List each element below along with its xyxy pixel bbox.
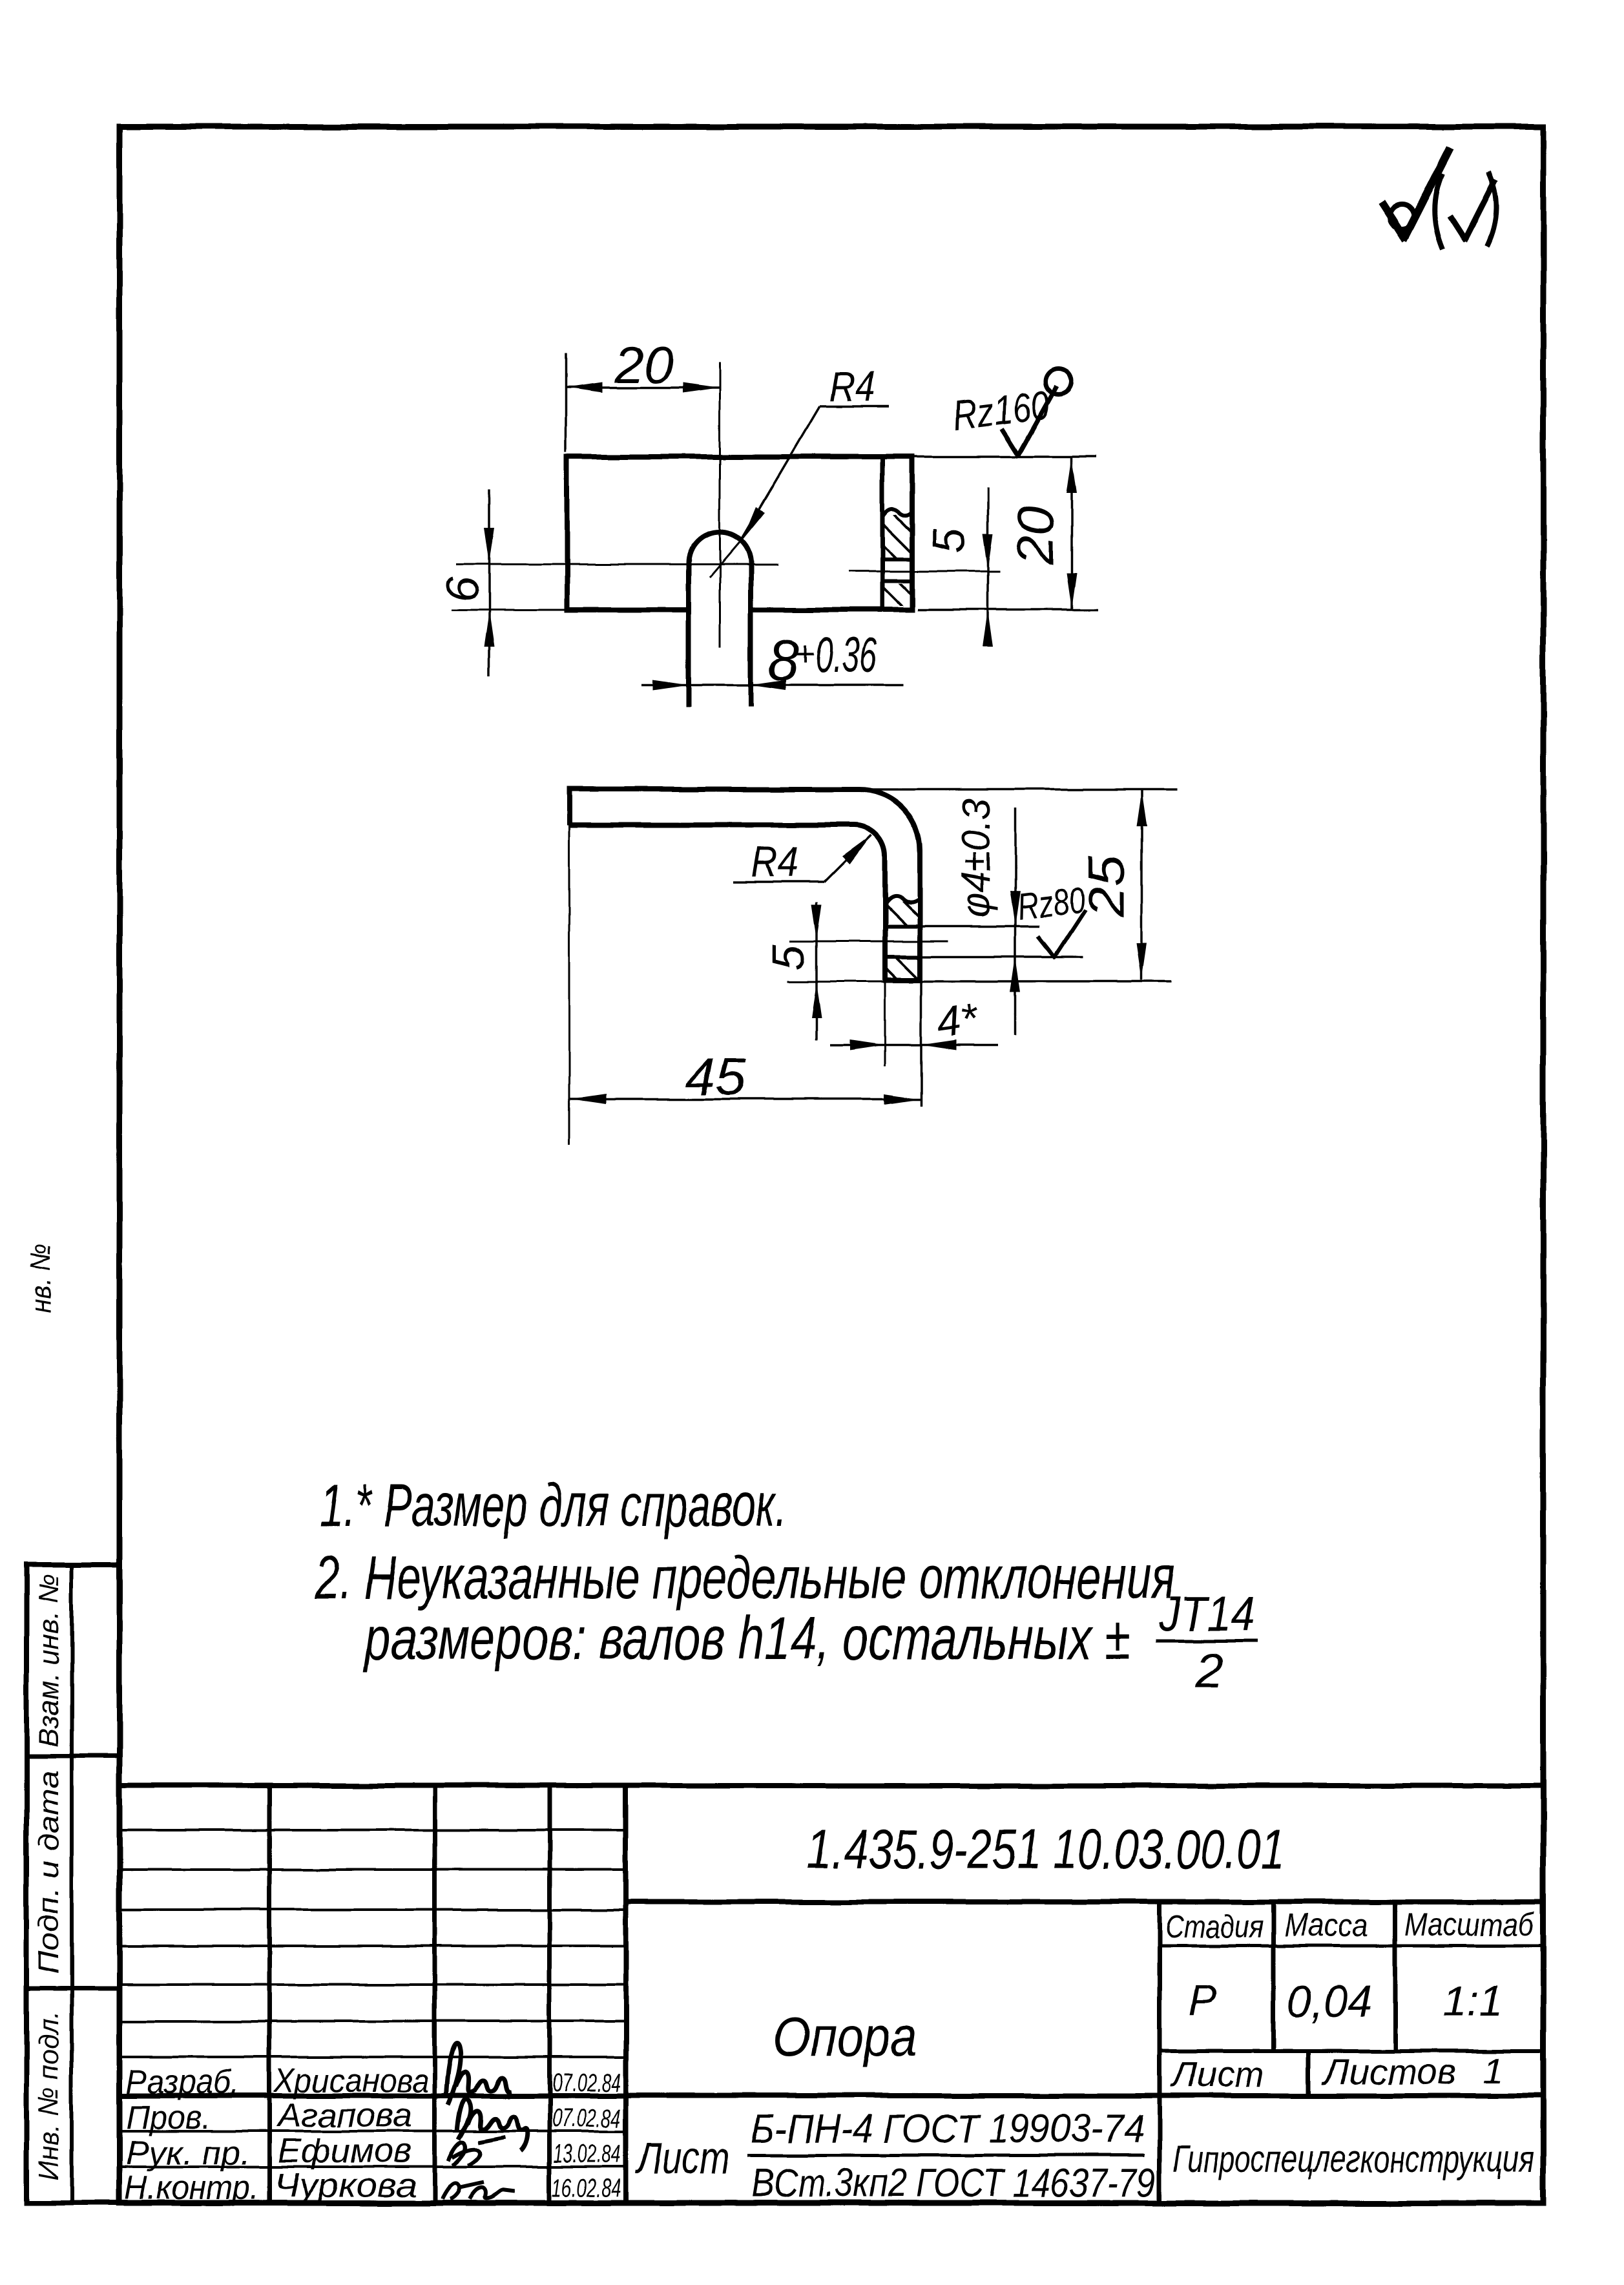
svg-text:2: 2 — [1195, 1643, 1223, 1698]
svg-text:5: 5 — [924, 528, 974, 554]
svg-text:Стадия: Стадия — [1165, 1908, 1264, 1945]
label podp i data — [33, 1771, 65, 1974]
svg-text:Р: Р — [1189, 1976, 1217, 2023]
svg-text:нв. №: нв. № — [25, 1243, 57, 1313]
view1 hole axis horizontal — [848, 570, 1000, 572]
svg-text:Листов: Листов — [1322, 2051, 1456, 2092]
svg-text:Взам. инв. №: Взам. инв. № — [33, 1574, 65, 1747]
title block outer top line — [120, 1783, 1543, 1788]
title block horizontal: below name row — [120, 2093, 1543, 2098]
view1 local section boundary line — [880, 458, 885, 609]
material cell — [635, 2107, 1156, 2206]
dimension 5 view1 — [924, 488, 993, 647]
svg-text:Разраб.: Разраб. — [126, 2063, 239, 2101]
svg-text:Масштаб: Масштаб — [1404, 1906, 1535, 1943]
svg-text:ВСт.3кп2 ГОСТ 14637-79: ВСт.3кп2 ГОСТ 14637-79 — [751, 2161, 1156, 2206]
view2 hole axis — [790, 941, 948, 943]
svg-text:1.* Размер для справок.: 1.* Размер для справок. — [320, 1471, 787, 1539]
svg-text:1: 1 — [1483, 2050, 1503, 2091]
view2 inner contour — [569, 825, 885, 980]
dimension 20 right — [912, 457, 1098, 610]
dimension dia 4 +-0.3 — [954, 798, 1021, 1036]
svg-text:Н.контр.: Н.контр. — [125, 2169, 259, 2207]
svg-text:45: 45 — [685, 1048, 747, 1105]
svg-text:R4: R4 — [829, 362, 875, 410]
title block horizontal: below values — [1160, 2049, 1543, 2053]
view2 break wavy line — [885, 896, 920, 904]
view1 hole edge lines — [882, 559, 912, 581]
dimension 25 — [1077, 789, 1147, 980]
svg-text:Опора: Опора — [773, 2006, 918, 2068]
view2 outer contour — [569, 789, 920, 980]
dimension 45 — [569, 1048, 921, 1105]
parenthesized check symbol — [1435, 172, 1496, 249]
names — [273, 2062, 429, 2204]
svg-text:Лист: Лист — [1171, 2054, 1264, 2094]
note line 2 — [314, 1543, 1175, 1611]
part name Opora — [773, 2006, 918, 2068]
view2 hole lines — [885, 926, 1083, 957]
svg-text:20: 20 — [614, 336, 673, 393]
dimension 6 left — [437, 490, 566, 676]
left table row lines — [120, 1830, 626, 2167]
view1 break (wavy) line — [882, 509, 912, 517]
svg-text:6: 6 — [437, 576, 488, 601]
svg-text:Чуркова: Чуркова — [274, 2167, 417, 2204]
svg-text:размеров: валов h14, остальных: размеров: валов h14, остальных ± — [364, 1604, 1130, 1672]
svg-text:φ4±0.3: φ4±0.3 — [954, 798, 999, 918]
dimension 4* — [830, 994, 998, 1050]
role labels — [125, 2063, 259, 2207]
view2 leg end face — [883, 977, 922, 983]
svg-text:20: 20 — [1006, 506, 1064, 565]
signature n kontr — [442, 2182, 514, 2199]
svg-text:5: 5 — [764, 944, 814, 970]
svg-text:Пров.: Пров. — [126, 2099, 211, 2136]
signature prov — [457, 2099, 528, 2151]
svg-text:0,04: 0,04 — [1287, 1976, 1372, 2027]
dimension 20 top — [566, 336, 720, 452]
view1 part outline — [567, 457, 912, 610]
svg-text:07.02.84: 07.02.84 — [552, 2104, 621, 2133]
stamp values — [1189, 1976, 1503, 2027]
svg-text:07.02.84: 07.02.84 — [552, 2069, 621, 2097]
label vzam inv — [33, 1574, 65, 1747]
dates — [552, 2069, 621, 2202]
view1 hatching lower — [884, 583, 910, 606]
label inv n podl — [33, 2011, 65, 2180]
svg-text:0.36: 0.36 — [815, 628, 877, 683]
view1 hatching upper — [884, 512, 910, 557]
view1 slot axis horizontal — [456, 564, 778, 566]
svg-text:2. Неуказанные предельные откл: 2. Неуказанные предельные отклонения — [314, 1543, 1175, 1611]
svg-text:4*: 4* — [934, 994, 982, 1047]
note line 3 — [364, 1604, 1130, 1672]
svg-text:Лист: Лист — [635, 2133, 729, 2183]
signature ruk pr — [448, 2137, 505, 2165]
view2 extension lines — [569, 789, 1178, 1144]
designation text — [807, 1819, 1285, 1881]
dimension 5 view2 — [764, 902, 822, 1040]
stamp headers — [1165, 1906, 1535, 1945]
signature razrab — [446, 2043, 512, 2105]
svg-text:Подп. и дата: Подп. и дата — [33, 1771, 65, 1974]
svg-text:Инв. № подл.: Инв. № подл. — [33, 2011, 65, 2180]
view2 hatching lower — [887, 959, 918, 978]
partial label fragment above stack — [25, 1243, 57, 1313]
surface finish general symbol with circle — [1381, 147, 1450, 240]
svg-text:13.02.84: 13.02.84 — [554, 2140, 621, 2168]
svg-text:Гипроспецлегконструкция: Гипроспецлегконструкция — [1172, 2138, 1534, 2180]
title block bottom line — [120, 2200, 1543, 2206]
dimension 8+0.36 — [642, 628, 904, 692]
svg-text:16.02.84: 16.02.84 — [552, 2174, 621, 2202]
svg-text:1:1: 1:1 — [1443, 1977, 1503, 2025]
title block horizontal: header underline — [1160, 1945, 1543, 1948]
leader R4 view1 — [709, 362, 889, 578]
organisation name — [1172, 2138, 1534, 2180]
leader R4 view2 — [734, 835, 871, 886]
view1 slot (width 8, R4) — [689, 532, 751, 706]
svg-text:Хрисанова: Хрисанова — [273, 2062, 429, 2100]
title block vertical dividers — [269, 1786, 1395, 2203]
sheet row — [1171, 2050, 1504, 2094]
svg-text:+: + — [795, 634, 815, 673]
drawing frame — [120, 127, 1543, 2203]
svg-text:R4: R4 — [751, 838, 798, 886]
roughness Rz160 callout — [950, 368, 1072, 457]
view1 slot centerline vertical — [719, 362, 721, 647]
svg-text:JT14: JT14 — [1158, 1587, 1255, 1642]
view2 hatching upper — [887, 899, 918, 924]
svg-text:Масса: Масса — [1284, 1907, 1368, 1943]
svg-text:Рук. пр.: Рук. пр. — [126, 2134, 250, 2172]
svg-text:Ефимов: Ефимов — [278, 2133, 412, 2170]
roughness Rz80 callout — [1015, 879, 1087, 958]
svg-text:Агапова: Агапова — [276, 2097, 412, 2134]
left margin stack boxes — [26, 1565, 120, 2203]
note tolerance fraction JT14/2 — [1156, 1587, 1258, 1698]
svg-text:1.435.9-251 10.03.00.01: 1.435.9-251 10.03.00.01 — [807, 1819, 1285, 1881]
note line 1 — [320, 1471, 787, 1539]
svg-text:25: 25 — [1077, 855, 1135, 918]
svg-text:Б-ПН-4 ГОСТ 19903-74: Б-ПН-4 ГОСТ 19903-74 — [751, 2107, 1144, 2151]
title block horizontal: below designation — [626, 1899, 1543, 1904]
